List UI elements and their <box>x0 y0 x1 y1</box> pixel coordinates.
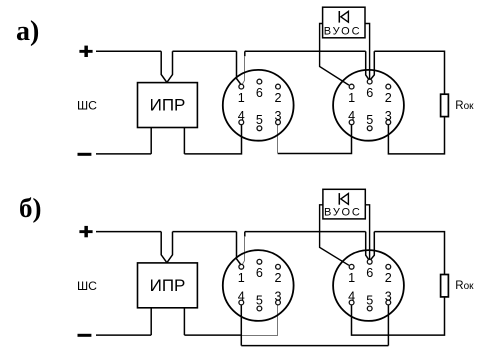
wire IPR left lead down (b) <box>150 308 152 335</box>
svg-text:2: 2 <box>274 91 281 105</box>
svg-text:а): а) <box>16 16 39 47</box>
detector D1 (a) pin 5 <box>256 113 263 131</box>
wire drop into D2 pin 6 right (a) <box>371 51 375 79</box>
wire D1 pin1 gray return (b) <box>242 236 244 264</box>
plus terminal symbol (b) <box>79 226 92 237</box>
svg-text:3: 3 <box>274 289 281 303</box>
detector D2 (b) pin 6 <box>366 259 373 280</box>
wire IPR notch right drop (a) <box>167 51 173 82</box>
wire D1 pin3 gray drop and link to pin4 (b) <box>242 305 278 336</box>
svg-text:1: 1 <box>348 91 355 105</box>
svg-text:5: 5 <box>366 113 373 127</box>
wire - bus from minus to IPR (a) <box>96 153 151 155</box>
detector D2 (a) pin 1 <box>348 84 355 105</box>
wire + bus D1 to D2 pin6 drop (b) <box>245 231 366 233</box>
svg-text:4: 4 <box>238 109 245 123</box>
wire + bus D2 to resistor (b) <box>374 232 444 275</box>
wire D2 pin3 to resistor bottom (a) <box>388 117 444 154</box>
LED diode symbol inside ВУОС (a) <box>339 11 348 23</box>
svg-text:3: 3 <box>385 289 392 303</box>
plus terminal symbol (a) <box>79 46 92 57</box>
wire + bus from plus to IPR notch (a) <box>96 50 161 52</box>
detector D1 (a) pin 3 <box>274 109 281 125</box>
svg-text:б): б) <box>19 193 42 223</box>
detector D1 (b) pin 3 <box>274 289 281 305</box>
wire - bus from minus to IPR (b) <box>96 334 151 336</box>
wire ВУОС (b) left lead to pin 1 <box>320 205 349 265</box>
detector D2 (a) pin 4 <box>348 109 355 125</box>
detector D1 (b) body <box>223 250 294 321</box>
detector D1 (a) pin 1 <box>238 84 245 105</box>
wire + bus D2 to resistor (a) <box>374 51 444 94</box>
wire + bus D1 to D2 pin6 drop (a) <box>245 50 366 52</box>
wire IPR notch left drop (b) <box>161 232 167 263</box>
minus terminal symbol (a) <box>78 153 92 156</box>
wire + bus IPR to detector D1 pin1 drop (a) <box>173 50 237 52</box>
detector D1 (b) pin 5 <box>256 293 263 311</box>
LED diode symbol inside ВУОС (b) <box>339 193 348 205</box>
svg-text:5: 5 <box>366 293 373 307</box>
wire drop into D2 pin 6 left (b) <box>366 232 369 260</box>
svg-text:1: 1 <box>238 271 245 285</box>
wire stub at D1 pin1 return (a) <box>244 51 246 56</box>
detector D1 (a) pin 4 <box>238 109 245 125</box>
wire + bus IPR to detector D1 pin1 drop (b) <box>173 231 237 233</box>
detector D2 (a) pin 6 <box>366 79 373 100</box>
detector D2 (b) pin 5 <box>366 293 373 311</box>
wire lower link D1 to D2 pin 3 (b) <box>241 345 388 347</box>
manual call point box ИПР (a) <box>138 83 198 128</box>
svg-text:ШС: ШС <box>77 99 97 113</box>
svg-text:4: 4 <box>348 289 355 303</box>
detector D2 (a) pin 5 <box>366 113 373 131</box>
svg-text:1: 1 <box>348 271 355 285</box>
svg-text:5: 5 <box>256 113 263 127</box>
detector D1 (b) pin 1 <box>238 264 245 285</box>
svg-text:6: 6 <box>256 86 263 100</box>
wire IPR left lead down (a) <box>150 128 152 154</box>
svg-text:2: 2 <box>385 271 392 285</box>
detector D1 (b) pin 6 <box>256 259 263 280</box>
svg-text:4: 4 <box>238 289 245 303</box>
svg-text:4: 4 <box>348 109 355 123</box>
wire drop into D1 pin 1 (a) <box>237 51 242 84</box>
wire IPR notch right drop (b) <box>167 232 173 263</box>
wire + bus from plus to IPR notch (b) <box>96 231 161 233</box>
svg-text:1: 1 <box>238 91 245 105</box>
svg-text:ИПР: ИПР <box>150 96 186 115</box>
wire D1 pin3 gray drop (a) <box>277 125 279 154</box>
wire ВУОС (a) left lead to pin 1 <box>320 24 349 86</box>
svg-text:ИПР: ИПР <box>150 276 186 295</box>
svg-text:2: 2 <box>274 271 281 285</box>
wire drop into D1 pin 1 (b) <box>237 232 242 265</box>
detector D2 (a) pin 2 <box>385 84 392 105</box>
wire stub at D1 pin1 return (b) <box>244 232 246 237</box>
detector D1 (b) pin 2 <box>274 264 281 285</box>
wire - bus IPR lead to D1 pin4 junction (b) <box>184 334 241 336</box>
svg-text:3: 3 <box>385 109 392 123</box>
wire ВУОС (b) right lead to pin 6 <box>365 205 369 259</box>
detector D2 (a) pin 3 <box>385 109 392 125</box>
detector D2 (b) body <box>333 250 404 321</box>
detector D2 (b) pin 3 <box>385 289 392 305</box>
wire D2 pin 4 to resistor bottom (b) <box>352 297 445 335</box>
wire ВУОС (a) right lead to pin 6 <box>365 24 370 80</box>
detector D1 (a) pin 6 <box>256 79 263 100</box>
svg-text:6: 6 <box>256 266 263 280</box>
remote indicator unit ВУОС (a) box <box>323 7 365 38</box>
wire IPR right lead down (a) <box>183 128 185 154</box>
wire D1 pin3 to D2 pin4 horizontal (a) <box>278 125 352 154</box>
svg-text:ВУОС: ВУОС <box>324 26 362 38</box>
detector D1 (a) pin 2 <box>274 84 281 105</box>
svg-text:2: 2 <box>385 91 392 105</box>
svg-text:6: 6 <box>366 266 373 280</box>
minus terminal symbol (b) <box>78 334 92 337</box>
wire IPR right lead down (b) <box>183 308 185 335</box>
svg-text:6: 6 <box>366 86 373 100</box>
terminating resistor Rок (a) body <box>441 94 449 116</box>
detector D2 (b) pin 1 <box>348 264 355 285</box>
detector D2 (b) pin 2 <box>385 264 392 285</box>
detector D2 (b) pin 4 <box>348 289 355 305</box>
svg-text:5: 5 <box>256 293 263 307</box>
terminating resistor Rок (b) body <box>441 275 449 297</box>
svg-text:ВУОС: ВУОС <box>324 207 362 219</box>
wire D1 pin1 gray return (a) <box>242 56 244 84</box>
wire - bus IPR to D1 pin 4 (a) <box>184 125 241 154</box>
svg-text:Rок: Rок <box>455 100 474 112</box>
wire drop into D2 pin 6 right (b) <box>371 232 375 260</box>
wire drop into D2 pin 6 left (a) <box>366 51 369 79</box>
remote indicator unit ВУОС (b) box <box>323 189 365 219</box>
detector D2 (a) body <box>333 70 404 141</box>
wire IPR notch left drop (a) <box>161 51 167 82</box>
svg-text:Rок: Rок <box>455 280 474 292</box>
detector D1 (b) pin 4 <box>238 289 245 305</box>
manual call point box ИПР (b) <box>138 263 198 308</box>
svg-text:ШС: ШС <box>77 279 97 293</box>
wire D1 pin 4 drop to lower link (b) <box>240 305 242 346</box>
detector D1 (a) body <box>223 70 294 141</box>
wire D2 pin 3 drop crossing mid (b) <box>387 305 389 346</box>
svg-text:3: 3 <box>274 109 281 123</box>
